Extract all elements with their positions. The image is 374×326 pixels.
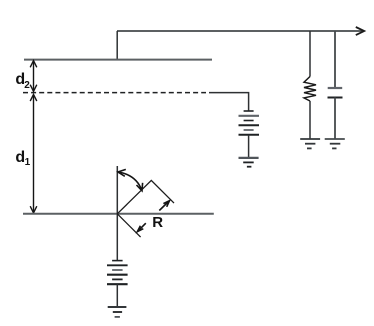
dimension arrow d1 (double headed) [30, 94, 37, 212]
svg-text:R: R [152, 214, 163, 231]
resistor R1 zigzag [304, 77, 316, 102]
battery B2 [239, 111, 260, 135]
wire capacitor to ground [334, 98, 336, 139]
wire resistor to ground [309, 101, 311, 139]
ground under battery B1 [108, 307, 127, 317]
wire from dashed plane to battery B2 [209, 93, 249, 111]
arrowhead top wire [356, 27, 364, 35]
ground under resistor [300, 139, 320, 148]
dimension arrow d2 (double headed) [30, 61, 37, 92]
wire top horizontal with arrow [117, 30, 362, 32]
dashed plane line [23, 92, 206, 94]
angle arc with arrowheads [118, 169, 143, 190]
bottom plate line [23, 213, 214, 215]
wire vertical through bottom plate to battery B1 [116, 166, 118, 260]
wire battery B2 to ground [248, 135, 250, 158]
capacitor C1 [328, 88, 343, 98]
ground under battery B2 [239, 158, 259, 167]
ground under capacitor [325, 139, 345, 148]
svg-text:1: 1 [25, 157, 31, 168]
wire capacitor branch drop [334, 31, 336, 88]
wire resistor branch drop [309, 31, 311, 77]
small arrow SW pointing at lower diagonal [137, 223, 146, 232]
diagonal bent line (junction to NE peak then SE) [117, 180, 174, 213]
small arrow NE pointing at upper diagonal [159, 201, 169, 211]
svg-text:2: 2 [24, 80, 30, 91]
wire battery B1 to ground [116, 284, 118, 307]
top capacitor plate line [24, 59, 212, 61]
diagonal SE line from junction [117, 214, 140, 237]
wire vertical connector from top plate to top wire [116, 31, 118, 60]
battery B1 [107, 261, 128, 285]
